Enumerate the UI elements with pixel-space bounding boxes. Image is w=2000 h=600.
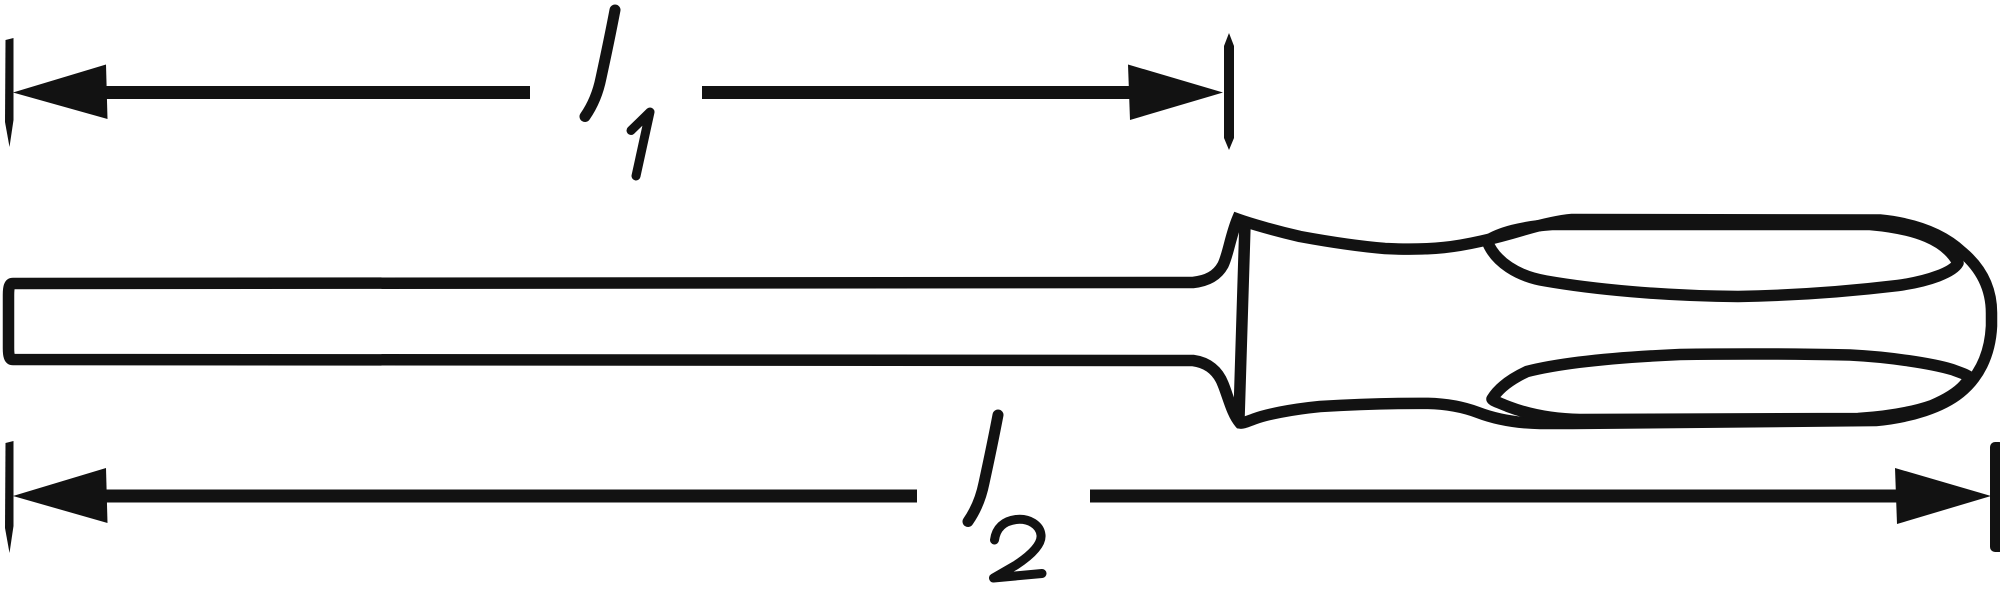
- dimension l1 left tick: [5, 38, 14, 147]
- handle top groove (upper flute): [1487, 225, 1958, 297]
- screwdriver shaft and handle outer contour: [9, 219, 1992, 424]
- dimension l1 line right segment: [702, 86, 1130, 99]
- dimension l2 line left segment: [100, 490, 917, 503]
- dimension l2 right arrowhead: [1895, 468, 1991, 524]
- dimension l1 right tick: [1224, 33, 1234, 150]
- handle bottom groove (lower flute): [1492, 354, 1970, 420]
- handle collar front face line: [1239, 224, 1245, 418]
- dimension l2 line right segment: [1090, 490, 1897, 503]
- label l1 letter l: [585, 10, 615, 117]
- screwdriver outline: shaft, ferrule and handle: [9, 219, 1992, 424]
- label l1 subscript 1: [631, 112, 650, 176]
- dimension l2 left arrowhead: [13, 468, 108, 523]
- label l2 letter l: [968, 415, 998, 522]
- dimension l2 left tick: [5, 441, 14, 553]
- dimension l1 line left segment: [100, 86, 530, 99]
- dimension l2 right tick: [1990, 442, 2000, 552]
- label l2 subscript 2: [994, 519, 1043, 578]
- dimension l1 left arrowhead: [13, 65, 108, 120]
- dimension l1 right arrowhead: [1128, 65, 1223, 121]
